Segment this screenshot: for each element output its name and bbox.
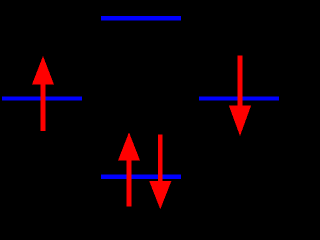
electron spin-down arrow on right level <box>229 56 251 137</box>
energy level: left atomic orbital <box>2 96 82 100</box>
energy level: right atomic orbital <box>199 96 279 100</box>
energy level: bottom bonding orbital <box>101 175 181 179</box>
electron spin-up arrow on bottom level <box>118 132 140 206</box>
energy level: top antibonding orbital <box>101 16 181 21</box>
electron spin-down arrow on bottom level <box>149 135 171 210</box>
electron spin-up arrow on left level <box>32 56 54 131</box>
